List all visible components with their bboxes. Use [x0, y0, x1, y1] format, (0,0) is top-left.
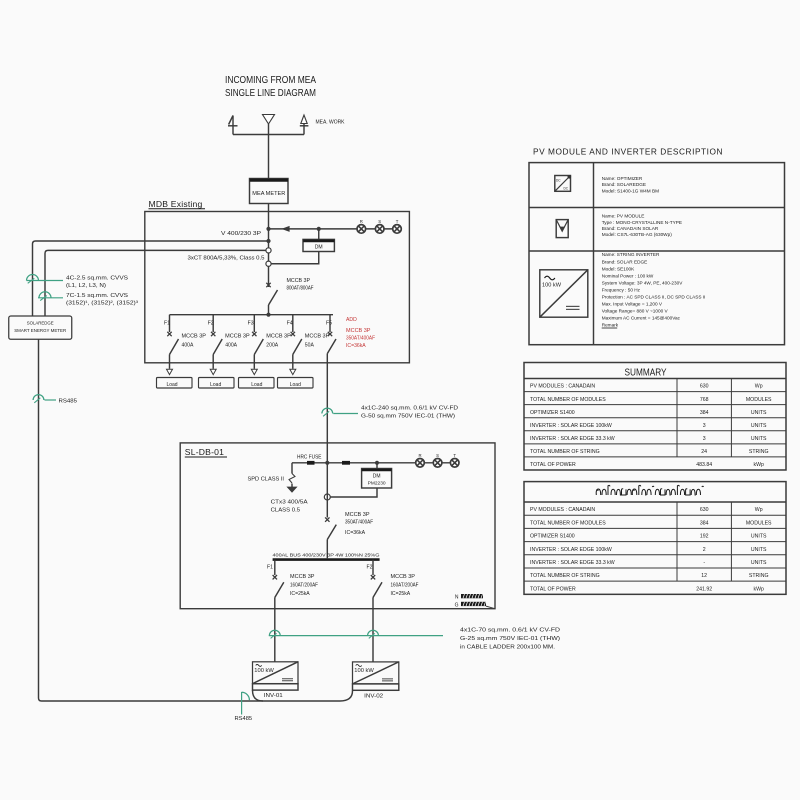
svg-text:TOTAL NUMBER OF MODULES: TOTAL NUMBER OF MODULES: [530, 397, 606, 403]
svg-text:MCCB 3P: MCCB 3P: [182, 334, 207, 340]
svg-text:CLASS 0.5: CLASS 0.5: [271, 508, 301, 514]
svg-text:MEA. WORK: MEA. WORK: [316, 119, 346, 125]
svg-text:4C-2.5 sq.mm. CVVS: 4C-2.5 sq.mm. CVVS: [66, 275, 128, 281]
svg-text:CTx3 400/5A: CTx3 400/5A: [271, 500, 308, 506]
svg-text:INVERTER : SOLAR EDGE 100kW: INVERTER : SOLAR EDGE 100kW: [530, 423, 612, 429]
svg-text:2: 2: [703, 547, 706, 553]
svg-text:TOTAL NUMBER OF MODULES: TOTAL NUMBER OF MODULES: [530, 520, 606, 526]
svg-text:350AT/400AF: 350AT/400AF: [346, 336, 375, 342]
svg-text:F2: F2: [367, 565, 373, 571]
svg-text:3: 3: [703, 436, 706, 442]
svg-text:RS485: RS485: [235, 716, 253, 722]
svg-text:3: 3: [703, 423, 706, 429]
svg-text:PM2230: PM2230: [368, 481, 386, 486]
svg-text:Type : MONO-CRYSTALLINE N-TYPE: Type : MONO-CRYSTALLINE N-TYPE: [602, 220, 682, 225]
svg-text:Load: Load: [210, 382, 221, 388]
svg-text:MCCB 3P: MCCB 3P: [391, 574, 416, 580]
svg-text:4x1C-240 sq.mm. 0.6/1 kV CV-FD: 4x1C-240 sq.mm. 0.6/1 kV CV-FD: [361, 406, 458, 412]
svg-text:F4: F4: [287, 321, 293, 327]
svg-text:SOLAREDGE: SOLAREDGE: [27, 321, 54, 327]
svg-text:V 400/230 3P: V 400/230 3P: [221, 231, 262, 237]
svg-text:483.84: 483.84: [696, 462, 712, 468]
svg-text:DC: DC: [556, 179, 561, 183]
svg-text:-: -: [703, 560, 705, 566]
svg-text:STRING: STRING: [749, 573, 769, 579]
svg-text:INVERTER : SOLAR EDGE 33.3 kW: INVERTER : SOLAR EDGE 33.3 kW: [530, 436, 615, 442]
svg-text:INVERTER : SOLAR EDGE 100kW: INVERTER : SOLAR EDGE 100kW: [530, 547, 612, 553]
svg-text:DC: DC: [564, 187, 569, 191]
svg-text:F3: F3: [248, 321, 254, 327]
svg-text:Maximum AC Current = 145@400Va: Maximum AC Current = 145@400Vac: [602, 316, 681, 321]
svg-text:400A: 400A: [225, 343, 237, 349]
svg-text:Frequency : 50 Hz: Frequency : 50 Hz: [602, 287, 641, 292]
svg-text:Nominal Power : 100 kW: Nominal Power : 100 kW: [602, 273, 654, 278]
svg-text:T: T: [453, 453, 456, 458]
svg-text:TOTAL NUMBER OF STRING: TOTAL NUMBER OF STRING: [530, 449, 600, 455]
svg-text:Brand: SOLAREDGE: Brand: SOLAREDGE: [602, 182, 646, 187]
svg-text:MODULES: MODULES: [746, 520, 772, 526]
svg-text:ADD: ADD: [346, 317, 357, 323]
svg-text:F1: F1: [267, 565, 273, 571]
svg-text:TOTAL NUMBER OF STRING: TOTAL NUMBER OF STRING: [530, 573, 600, 579]
svg-text:F2: F2: [208, 321, 214, 327]
svg-text:384: 384: [700, 410, 709, 416]
svg-text:R: R: [418, 453, 421, 458]
svg-text:HRC FUSE: HRC FUSE: [297, 455, 322, 461]
svg-text:UNITS: UNITS: [751, 547, 767, 553]
svg-text:Model: SE100K: Model: SE100K: [602, 266, 635, 271]
svg-text:kWp: kWp: [754, 586, 764, 592]
svg-text:350AT/400AF: 350AT/400AF: [345, 520, 373, 526]
svg-text:MCCB 3P: MCCB 3P: [346, 328, 371, 334]
svg-text:System Voltage: 3P 4W, PE, 400: System Voltage: 3P 4W, PE, 400-230V: [602, 280, 684, 285]
svg-text:OPTIMIZER S1400: OPTIMIZER S1400: [530, 534, 575, 540]
svg-text:200A: 200A: [266, 343, 278, 349]
svg-text:Name: OPTIMIZER: Name: OPTIMIZER: [602, 176, 643, 181]
svg-text:UNITS: UNITS: [751, 534, 767, 540]
svg-text:Voltage Range= 880 V ~1000 V: Voltage Range= 880 V ~1000 V: [602, 309, 669, 314]
svg-text:UNITS: UNITS: [751, 423, 767, 429]
svg-text:Wp: Wp: [755, 507, 763, 513]
svg-text:N: N: [455, 595, 459, 601]
svg-text:Model: CS7L-630TB-AG (630Wp): Model: CS7L-630TB-AG (630Wp): [602, 232, 673, 237]
svg-text:in CABLE LADDER 200x100 MM.: in CABLE LADDER 200x100 MM.: [460, 644, 556, 650]
svg-text:630: 630: [700, 384, 709, 390]
svg-text:192: 192: [700, 534, 709, 540]
svg-text:PV MODULES : CANADAIN: PV MODULES : CANADAIN: [530, 507, 595, 513]
svg-text:DM: DM: [373, 474, 381, 480]
svg-text:INCOMING FROM MEA: INCOMING FROM MEA: [225, 74, 316, 86]
svg-text:PV MODULE AND INVERTER DESCRIP: PV MODULE AND INVERTER DESCRIPTION: [533, 147, 723, 157]
svg-text:F1: F1: [164, 321, 170, 327]
svg-text:SUMMARY: SUMMARY: [625, 368, 667, 379]
svg-text:MCCB 3P: MCCB 3P: [345, 512, 370, 518]
svg-text:Brand: SOLAR EDGE: Brand: SOLAR EDGE: [602, 259, 648, 264]
svg-text:Max. Input Voltage = 1,200 V: Max. Input Voltage = 1,200 V: [602, 302, 663, 307]
svg-text:800AT/800AF: 800AT/800AF: [287, 285, 314, 291]
svg-text:MCCB 3P: MCCB 3P: [266, 334, 291, 340]
svg-text:INVERTER : SOLAR EDGE 33.3 kW: INVERTER : SOLAR EDGE 33.3 kW: [530, 560, 615, 566]
svg-text:Load: Load: [251, 382, 262, 388]
svg-text:24: 24: [701, 449, 707, 455]
svg-text:400A: 400A: [182, 343, 194, 349]
svg-text:MCCB 3P: MCCB 3P: [287, 278, 311, 284]
svg-text:160AT/200AF: 160AT/200AF: [391, 582, 419, 588]
svg-text:DM: DM: [315, 245, 323, 251]
svg-text:Protection : AC SPD CLASS II,: Protection : AC SPD CLASS II, DC SPD CLA…: [602, 295, 706, 300]
svg-text:IC=36kA: IC=36kA: [346, 343, 366, 349]
svg-text:IC=36kA: IC=36kA: [345, 530, 366, 536]
svg-text:768: 768: [700, 397, 709, 403]
svg-text:Name: STRING INVERTER: Name: STRING INVERTER: [602, 252, 660, 257]
svg-text:Remark: Remark: [602, 323, 619, 328]
svg-text:UNITS: UNITS: [751, 560, 767, 566]
svg-text:50A: 50A: [305, 343, 315, 349]
svg-text:TOTAL OF POWER: TOTAL OF POWER: [530, 462, 576, 468]
svg-text:Wp: Wp: [755, 384, 763, 390]
svg-text:RS485: RS485: [59, 399, 78, 405]
svg-text:MCCB 3P: MCCB 3P: [290, 574, 315, 580]
svg-text:MDB Existing: MDB Existing: [149, 199, 203, 209]
svg-text:Name: PV MODULE: Name: PV MODULE: [602, 214, 645, 219]
svg-text:MODULES: MODULES: [746, 397, 772, 403]
svg-text:100 kW: 100 kW: [354, 668, 374, 674]
svg-text:F5: F5: [326, 321, 332, 327]
svg-text:SINGLE LINE DIAGRAM: SINGLE LINE DIAGRAM: [225, 87, 316, 99]
svg-text:IC=25kA: IC=25kA: [290, 591, 310, 597]
svg-text:STRING: STRING: [749, 449, 769, 455]
svg-text:160AT/200AF: 160AT/200AF: [290, 582, 318, 588]
svg-text:(L1, L2, L3, N): (L1, L2, L3, N): [66, 283, 106, 289]
svg-text:OPTIMIZER S1400: OPTIMIZER S1400: [530, 410, 575, 416]
svg-text:241.92: 241.92: [696, 586, 712, 592]
svg-text:Load: Load: [166, 382, 177, 388]
svg-text:SMART ENERGY METER: SMART ENERGY METER: [14, 328, 66, 334]
svg-text:12: 12: [701, 573, 707, 579]
svg-text:INV-01: INV-01: [264, 693, 283, 699]
svg-text:MCCB 3P: MCCB 3P: [305, 334, 330, 340]
svg-text:630: 630: [700, 507, 709, 513]
svg-text:4x1C-70 sq.mm. 0.6/1 kV CV-FD: 4x1C-70 sq.mm. 0.6/1 kV CV-FD: [460, 627, 560, 633]
svg-text:Brand: CANADAIN SOLAR: Brand: CANADAIN SOLAR: [602, 226, 659, 231]
svg-text:R: R: [360, 219, 363, 224]
svg-text:UNITS: UNITS: [751, 410, 767, 416]
svg-text:400AL BUS 400/230V 3P 4W 100%N: 400AL BUS 400/230V 3P 4W 100%N 25%G: [273, 552, 380, 558]
svg-text:INV-02: INV-02: [364, 693, 383, 699]
svg-text:S: S: [378, 219, 381, 224]
svg-text:TOTAL OF POWER: TOTAL OF POWER: [530, 586, 576, 592]
svg-text:3xCT 800A/5,33%, Class 0.5: 3xCT 800A/5,33%, Class 0.5: [188, 256, 265, 262]
svg-text:UNITS: UNITS: [751, 436, 767, 442]
svg-text:T: T: [396, 219, 399, 224]
svg-text:G: G: [455, 603, 459, 609]
svg-text:100 kW: 100 kW: [254, 668, 274, 674]
svg-text:SL-DB-01: SL-DB-01: [185, 447, 224, 457]
svg-text:IC=25kA: IC=25kA: [391, 591, 411, 597]
svg-text:G-50 sq.mm 750V IEC-01 (THW): G-50 sq.mm 750V IEC-01 (THW): [361, 414, 455, 420]
svg-text:Model: S1400-1G W4M BM: Model: S1400-1G W4M BM: [602, 189, 659, 194]
svg-text:7C-1.5 sq.mm. CVVS: 7C-1.5 sq.mm. CVVS: [66, 293, 128, 299]
svg-text:MCCB 3P: MCCB 3P: [225, 334, 250, 340]
svg-text:PV MODULES : CANADAIN: PV MODULES : CANADAIN: [530, 384, 595, 390]
svg-text:(3152)¹, (3152)², (3152)³: (3152)¹, (3152)², (3152)³: [66, 300, 138, 306]
svg-text:100 kW: 100 kW: [542, 283, 561, 289]
svg-text:SPD CLASS II: SPD CLASS II: [248, 477, 285, 483]
svg-text:384: 384: [700, 520, 709, 526]
svg-text:MEA METER: MEA METER: [252, 191, 285, 197]
svg-text:kWp: kWp: [754, 462, 764, 468]
svg-text:Load: Load: [290, 382, 301, 388]
svg-text:S: S: [436, 453, 439, 458]
svg-text:G-25 sq.mm 750V IEC-01 (THW): G-25 sq.mm 750V IEC-01 (THW): [460, 636, 560, 642]
